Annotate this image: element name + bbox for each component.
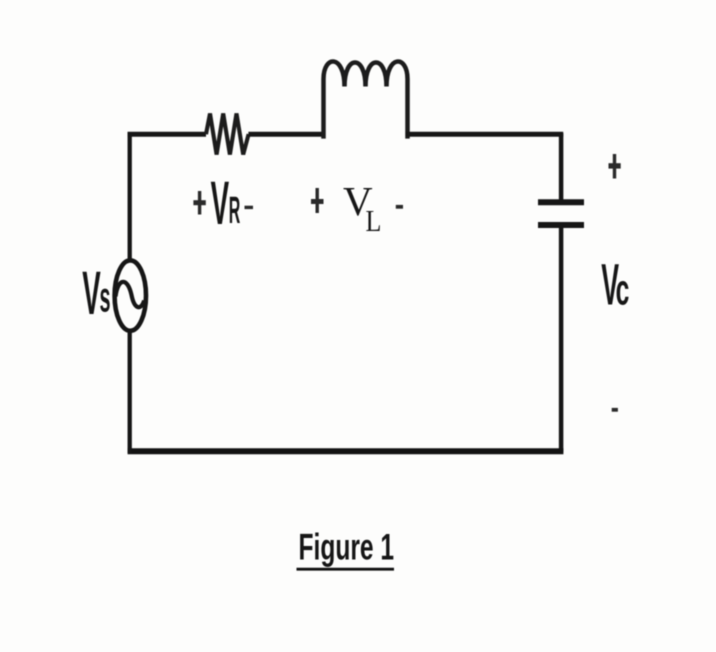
resistor R (zigzag) [206, 114, 249, 155]
wire: right vertical from capacitor to bottom wire [559, 227, 564, 452]
label + (plus of VL) vertical stroke [316, 188, 319, 213]
label - (minus of VR) [245, 206, 254, 209]
svg-text:L: L [366, 204, 382, 239]
label + (plus above capacitor) vertical stroke [613, 154, 616, 179]
wire: top middle segment between resistor and inductor [248, 132, 325, 137]
svg-text:s: s [100, 274, 111, 322]
AC voltage source symbol (ellipse) [115, 260, 146, 330]
wire: right vertical from top wire to capacitor [559, 133, 564, 201]
capacitor C (top plate) [538, 199, 584, 205]
svg-text:c: c [616, 265, 630, 314]
svg-text:Figure 1: Figure 1 [299, 525, 395, 568]
label + (plus of VL) horizontal stroke [311, 199, 324, 204]
label - (minus of VL) [396, 205, 403, 209]
wire: bottom horizontal segment [128, 448, 564, 454]
capacitor C (bottom plate) [538, 222, 584, 228]
label - (minus below capacitor) [612, 408, 618, 412]
wire: left vertical from top wire to source [128, 132, 132, 262]
label + (plus above capacitor) horizontal stroke [609, 163, 621, 168]
label + (plus of VR) vertical stroke [198, 191, 201, 215]
wire: left vertical from source to bottom wire [128, 329, 132, 453]
wire: top-left horizontal segment [128, 132, 206, 137]
svg-text:V: V [211, 170, 230, 238]
caption underline [297, 568, 395, 571]
svg-text:V: V [82, 260, 101, 328]
svg-text:R: R [229, 190, 241, 232]
label + (plus of VR) horizontal stroke [193, 200, 205, 205]
wire: top-right horizontal segment [406, 132, 564, 137]
inductor L (raised coil with 4 humps) [324, 61, 408, 136]
AC voltage source sine wave [116, 282, 145, 307]
